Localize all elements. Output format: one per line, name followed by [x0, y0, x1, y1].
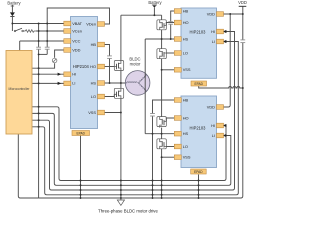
- capacitor C2: [45, 47, 50, 49]
- svg-text:HS: HS: [91, 80, 97, 85]
- diode D1: [10, 12, 15, 16]
- capacitor C5 (bootstrap C): [150, 114, 155, 117]
- pin VDD1: [207, 11, 224, 16]
- pin VDD2: [207, 104, 224, 109]
- jumper circle: [52, 58, 57, 63]
- wire EPAD2 ground column: [198, 175, 200, 199]
- wire phase A mid column: [120, 71, 122, 89]
- svg-text:motor: motor: [130, 62, 141, 67]
- node VCEN rail: [36, 30, 64, 32]
- pin HS2: [174, 131, 188, 136]
- wire phase B/C shared column: [161, 59, 163, 117]
- arrowhead HI IC1: [223, 30, 227, 33]
- wire phase B mid column: [161, 30, 163, 49]
- svg-text:EPAD: EPAD: [194, 170, 203, 174]
- svg-text:HB: HB: [183, 97, 189, 102]
- pin HI1: [211, 29, 223, 34]
- node Battery (left) label: [7, 1, 21, 6]
- transistor Q3 (phase B high): [157, 20, 166, 30]
- wire EPAD2104 ground column: [80, 136, 82, 199]
- pin HO2: [174, 115, 188, 120]
- wire LO2 to Q6 gate: [166, 146, 176, 148]
- wire HS node phase A: [104, 82, 126, 84]
- svg-text:LO: LO: [183, 50, 188, 55]
- wire EPAD1 ground with hops: [199, 86, 243, 88]
- arrowhead LI: [58, 82, 62, 85]
- svg-text:HO: HO: [183, 115, 189, 120]
- pin LI1: [212, 39, 224, 44]
- node VCC rail: [20, 40, 64, 42]
- svg-text:HB: HB: [183, 8, 189, 13]
- svg-text:HS: HS: [183, 131, 189, 136]
- svg-text:Microcontroller: Microcontroller: [9, 87, 31, 91]
- svg-text:EPAD: EPAD: [76, 131, 85, 135]
- svg-text:HO: HO: [90, 64, 96, 69]
- wire phase B drain column: [161, 15, 163, 20]
- svg-text:VDD: VDD: [72, 47, 80, 52]
- pin HS2104: [91, 80, 105, 85]
- switch S1: [14, 28, 23, 32]
- pin HO1: [174, 20, 188, 25]
- svg-text:HIP2103: HIP2103: [190, 126, 207, 131]
- wire HS2 node: [145, 133, 176, 135]
- node Battery (top) label: [148, 0, 162, 8]
- wire VDD pin IC1 to rail: [221, 13, 243, 15]
- svg-text:LI: LI: [212, 133, 215, 138]
- svg-text:VCen: VCen: [72, 28, 82, 33]
- arrowhead HI: [58, 73, 62, 76]
- arrowhead LI IC1: [223, 40, 227, 43]
- svg-text:HO: HO: [183, 20, 189, 25]
- svg-text:HB: HB: [91, 42, 97, 47]
- svg-text:Battery: Battery: [7, 1, 21, 6]
- capacitor C6 (VDD): [240, 14, 245, 88]
- node VBAT rail: [12, 23, 64, 25]
- wire VDD to microcontroller (with meter circle): [32, 50, 64, 68]
- svg-text:LO: LO: [91, 94, 96, 99]
- transistor Q4 (phase B low): [157, 49, 166, 59]
- pin VBAT: [64, 21, 83, 26]
- wire VSS2 to column: [162, 156, 176, 158]
- capacitor C3 (bootstrap A): [107, 56, 112, 59]
- wire cap bottoms join: [39, 53, 48, 55]
- pin LO2: [174, 144, 188, 149]
- wire VSS1 to column: [162, 69, 176, 71]
- wire LO1 to Q4 gate: [166, 52, 176, 54]
- svg-text:HS: HS: [183, 36, 189, 41]
- pin VSS2104: [88, 110, 104, 115]
- svg-text:HI: HI: [211, 123, 215, 128]
- wire MCU signal 1 (to bus): [32, 107, 226, 181]
- svg-text:LO: LO: [183, 144, 188, 149]
- capacitor C1: [36, 47, 41, 49]
- wire cap column 1: [38, 24, 40, 55]
- pin VCEN: [64, 28, 82, 33]
- bootstrap cap A wire: [104, 45, 110, 84]
- pin HB2104: [91, 42, 105, 47]
- wire LO to Q2 gate: [104, 94, 114, 96]
- svg-text:VDD: VDD: [238, 0, 247, 5]
- svg-text:VDD: VDD: [207, 104, 215, 109]
- svg-text:HI: HI: [211, 29, 215, 34]
- svg-text:LI: LI: [212, 39, 215, 44]
- arrowhead HI IC2: [223, 124, 227, 127]
- wire phase C mid column: [161, 128, 163, 139]
- pin VSS1: [174, 67, 191, 72]
- wire cap C column to ground bus: [152, 134, 154, 198]
- EPAD HIP2103 bottom: [191, 169, 207, 174]
- wire MCU to LI (HIP2104): [32, 82, 64, 84]
- pin LO1: [174, 50, 188, 55]
- svg-text:Battery: Battery: [148, 0, 162, 5]
- bootstrap cap C wire: [153, 100, 177, 134]
- wire battery left vertical: [11, 5, 13, 13]
- pin HI2: [211, 123, 223, 128]
- pin VSS2: [174, 155, 191, 160]
- svg-text:VSS: VSS: [88, 110, 96, 115]
- pin VCC: [64, 38, 81, 43]
- wire HO2 to Q5 gate: [166, 118, 176, 122]
- wire VCC rail drop to microcontroller: [19, 41, 21, 51]
- wire phase A ground column: [120, 98, 122, 198]
- node battery rail: [121, 14, 162, 16]
- wire VDD bus to IC2: [222, 14, 230, 107]
- op-amp U3 HIP2103 bottom body: [181, 96, 217, 168]
- capacitor C4 (bootstrap B): [168, 22, 173, 25]
- svg-text:VCC: VCC: [72, 38, 80, 43]
- wire MCU bottom to ground bus: [18, 134, 38, 198]
- pin HB2: [174, 97, 188, 102]
- transistor Q5 (phase C high): [157, 117, 166, 128]
- pin VDEN: [86, 21, 104, 26]
- node VDD (top right) label: [238, 0, 247, 6]
- svg-text:HIP2103: HIP2103: [190, 30, 207, 35]
- op-amp U2 HIP2103 top body: [181, 8, 217, 78]
- wire diode to rails: [11, 17, 13, 32]
- arrowhead LI IC2: [223, 134, 227, 137]
- svg-text:VBAT: VBAT: [72, 21, 82, 26]
- wire ground right column: [39, 88, 243, 198]
- wire phase A drain column: [120, 15, 122, 60]
- resistor R1: [23, 30, 36, 33]
- wire HS1 node: [145, 38, 176, 40]
- wire ground column from caps: [38, 54, 40, 198]
- wire VDD rail drop: [242, 6, 244, 14]
- pin VDD2104: [64, 47, 81, 52]
- transistor Q1 (phase A high): [114, 61, 123, 71]
- pin LO2104: [91, 94, 105, 99]
- BLDC motor: [125, 71, 150, 96]
- EPAD HIP2104: [72, 131, 90, 136]
- Microcontroller: [6, 51, 32, 135]
- wire cap column 2: [46, 31, 48, 54]
- pin LI2104: [64, 81, 76, 86]
- wire VDEN loop (top): [47, 8, 109, 31]
- pin LI2: [212, 133, 224, 138]
- svg-text:VSS: VSS: [183, 155, 191, 160]
- wire HO1 to Q3 gate: [166, 23, 176, 26]
- pin HB1: [174, 8, 188, 13]
- svg-text:VDD: VDD: [207, 11, 215, 16]
- EPAD HIP2103 top: [191, 81, 207, 86]
- op-amp U1 HIP2104 body: [71, 17, 98, 129]
- svg-text:HIP2104: HIP2104: [73, 64, 90, 69]
- wire motor phase line vertical: [144, 39, 146, 134]
- wire MCU signal 3: [32, 32, 235, 191]
- wire phase C ground column: [161, 149, 163, 198]
- wire MCU signal 2: [32, 113, 231, 185]
- svg-text:LI: LI: [72, 81, 75, 86]
- node BLDC motor label: [129, 56, 141, 66]
- svg-text:EPAD: EPAD: [194, 82, 203, 86]
- svg-text:HI: HI: [72, 72, 76, 77]
- wire MCU signal 4: [32, 42, 238, 195]
- wire MCU to HI (HIP2104): [32, 73, 64, 75]
- svg-text:VSS: VSS: [183, 67, 191, 72]
- transistor Q2 (phase A low): [114, 88, 123, 98]
- pin HI2104: [64, 72, 76, 77]
- pin HS1: [174, 36, 188, 41]
- wire VSS (HIP2104) to ground column: [104, 112, 121, 114]
- wire battery top drop: [153, 8, 155, 15]
- transistor Q6 (phase C low): [157, 139, 166, 149]
- ground symbol: [117, 198, 124, 205]
- wire HO to Q1 gate: [104, 66, 114, 68]
- pin HO2104: [90, 64, 104, 69]
- bootstrap cap B wire: [171, 11, 176, 39]
- svg-text:VDen: VDen: [86, 21, 96, 26]
- svg-text:Three-phase BLDC motor drive: Three-phase BLDC motor drive: [98, 209, 158, 214]
